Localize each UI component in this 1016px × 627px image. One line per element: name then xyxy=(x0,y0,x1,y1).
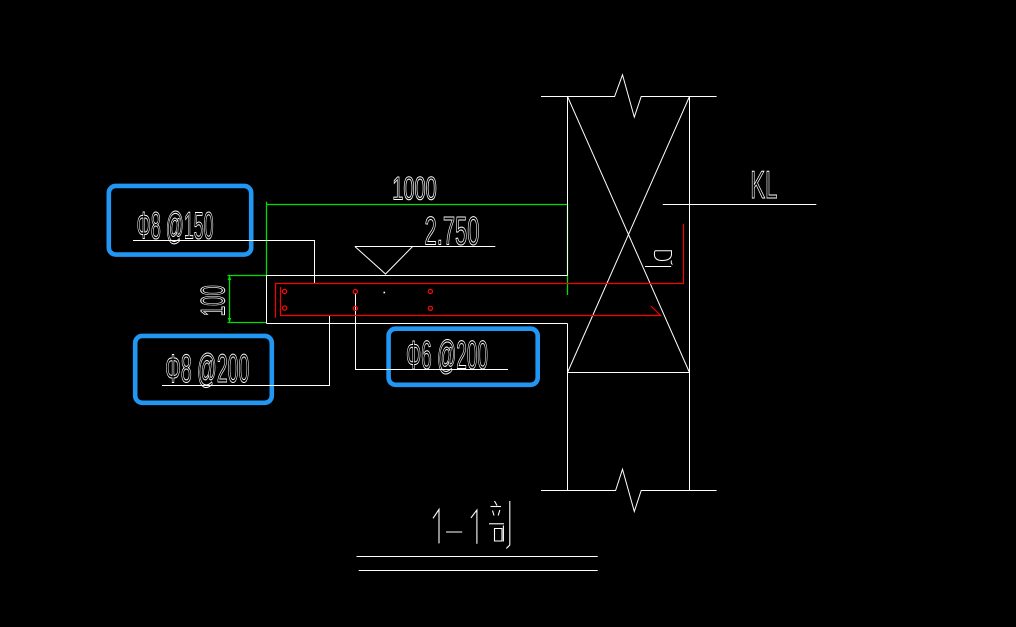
svg-text:Φ8 @150: Φ8 @150 xyxy=(137,206,214,248)
svg-text:KL: KL xyxy=(750,164,777,207)
svg-text:100: 100 xyxy=(194,285,232,316)
svg-text:1000: 1000 xyxy=(392,170,437,206)
svg-text:Φ8 @200: Φ8 @200 xyxy=(165,347,249,391)
svg-text:Φ6 @200: Φ6 @200 xyxy=(406,334,488,378)
svg-text:2.750: 2.750 xyxy=(425,210,480,254)
